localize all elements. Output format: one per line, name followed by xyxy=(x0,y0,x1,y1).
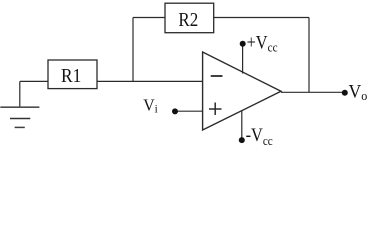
wire: feedback top horizontal (through R2) xyxy=(133,17,309,19)
wire: -Vcc supply to op-amp bottom xyxy=(241,111,243,141)
node -Vcc xyxy=(239,124,273,148)
wire: Vi input to non-inverting input xyxy=(175,110,203,112)
wire: feedback left vertical xyxy=(132,18,134,83)
wire: feedback right vertical xyxy=(308,18,310,93)
ground xyxy=(0,82,39,128)
svg-text:R2: R2 xyxy=(178,9,198,32)
resistor R1 xyxy=(48,60,97,89)
node Vi xyxy=(143,95,178,116)
resistor R2 xyxy=(165,3,214,33)
node Vo xyxy=(342,81,368,103)
node +Vcc xyxy=(240,31,278,54)
wire: ground to inverting input (through R1) xyxy=(20,80,203,82)
wire: output xyxy=(281,91,345,93)
svg-text:R1: R1 xyxy=(61,65,81,87)
op-amp U1 xyxy=(203,52,281,130)
wire: +Vcc supply to op-amp top xyxy=(242,44,244,74)
